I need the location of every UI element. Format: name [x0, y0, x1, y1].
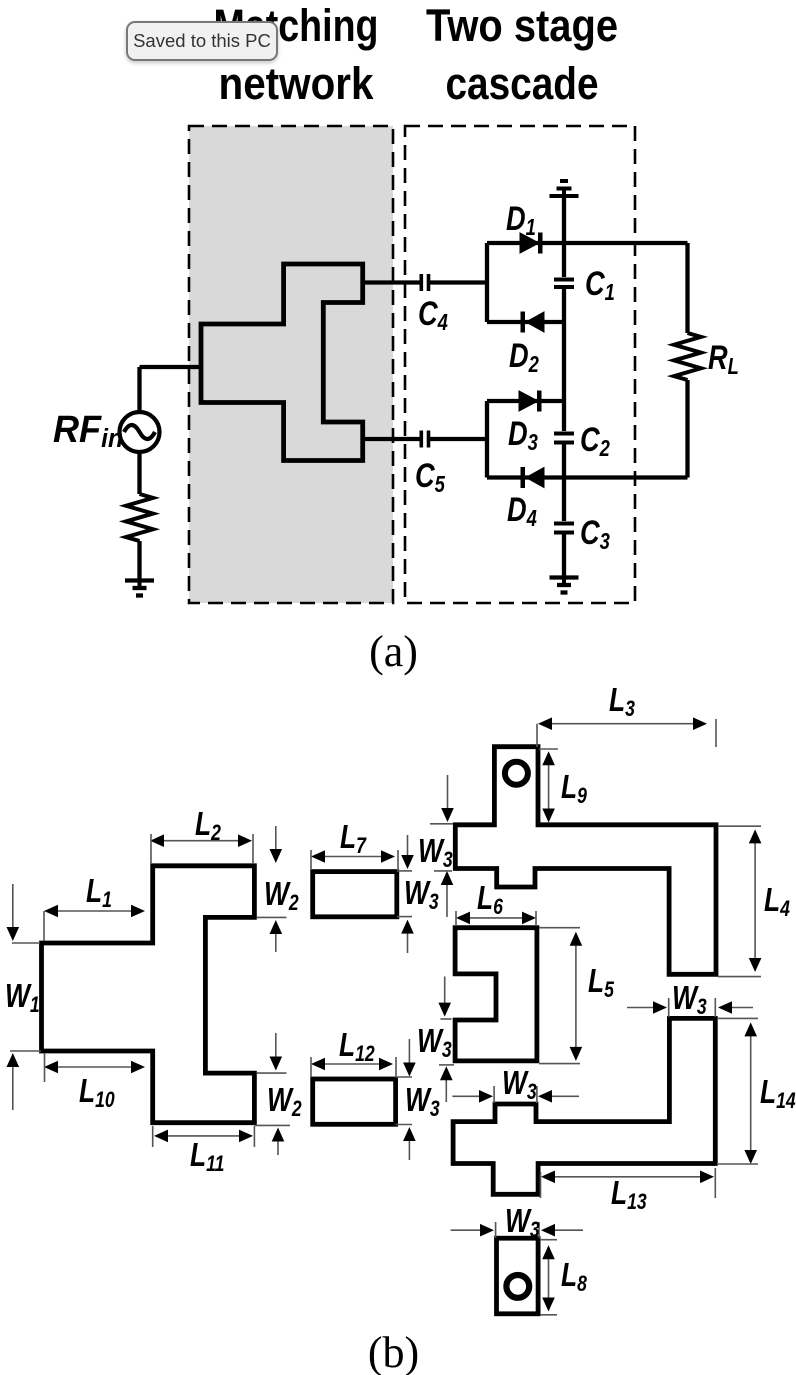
svg-text:W3: W3: [505, 1203, 540, 1242]
svg-text:L8: L8: [561, 1257, 588, 1296]
svg-text:RFin: RFin: [53, 407, 123, 453]
svg-text:W3: W3: [502, 1065, 537, 1104]
svg-text:L11: L11: [190, 1137, 224, 1176]
svg-text:W2: W2: [264, 876, 299, 915]
svg-text:W1: W1: [5, 978, 40, 1017]
svg-text:L14: L14: [760, 1074, 796, 1113]
svg-text:L12: L12: [339, 1027, 375, 1066]
svg-text:Two stage: Two stage: [426, 0, 618, 51]
svg-text:L7: L7: [340, 819, 367, 858]
svg-text:C3: C3: [580, 513, 610, 554]
svg-text:L4: L4: [764, 882, 790, 921]
svg-text:RL: RL: [708, 338, 739, 379]
svg-text:W3: W3: [405, 1082, 440, 1121]
svg-text:cascade: cascade: [446, 58, 599, 109]
svg-text:W3: W3: [417, 1023, 452, 1062]
svg-text:W3: W3: [404, 875, 439, 914]
svg-text:D4: D4: [507, 490, 537, 531]
svg-text:C1: C1: [585, 264, 615, 305]
svg-text:C2: C2: [580, 420, 610, 461]
svg-text:C4: C4: [418, 294, 448, 335]
svg-text:L3: L3: [609, 682, 635, 721]
svg-text:W2: W2: [267, 1082, 302, 1121]
svg-text:C5: C5: [415, 456, 445, 497]
svg-text:W3: W3: [418, 833, 453, 872]
svg-text:D1: D1: [506, 199, 536, 240]
svg-text:W3: W3: [672, 980, 707, 1019]
svg-text:D2: D2: [509, 336, 539, 377]
svg-text:L1: L1: [86, 873, 112, 912]
svg-text:L2: L2: [195, 806, 221, 845]
svg-text:L5: L5: [588, 963, 615, 1002]
svg-text:(b): (b): [368, 1328, 419, 1375]
svg-text:D3: D3: [508, 414, 538, 455]
svg-text:(a): (a): [369, 627, 418, 676]
svg-text:L10: L10: [79, 1073, 115, 1112]
svg-text:L13: L13: [611, 1175, 647, 1214]
svg-text:network: network: [219, 58, 375, 109]
svg-text:L9: L9: [561, 769, 587, 808]
